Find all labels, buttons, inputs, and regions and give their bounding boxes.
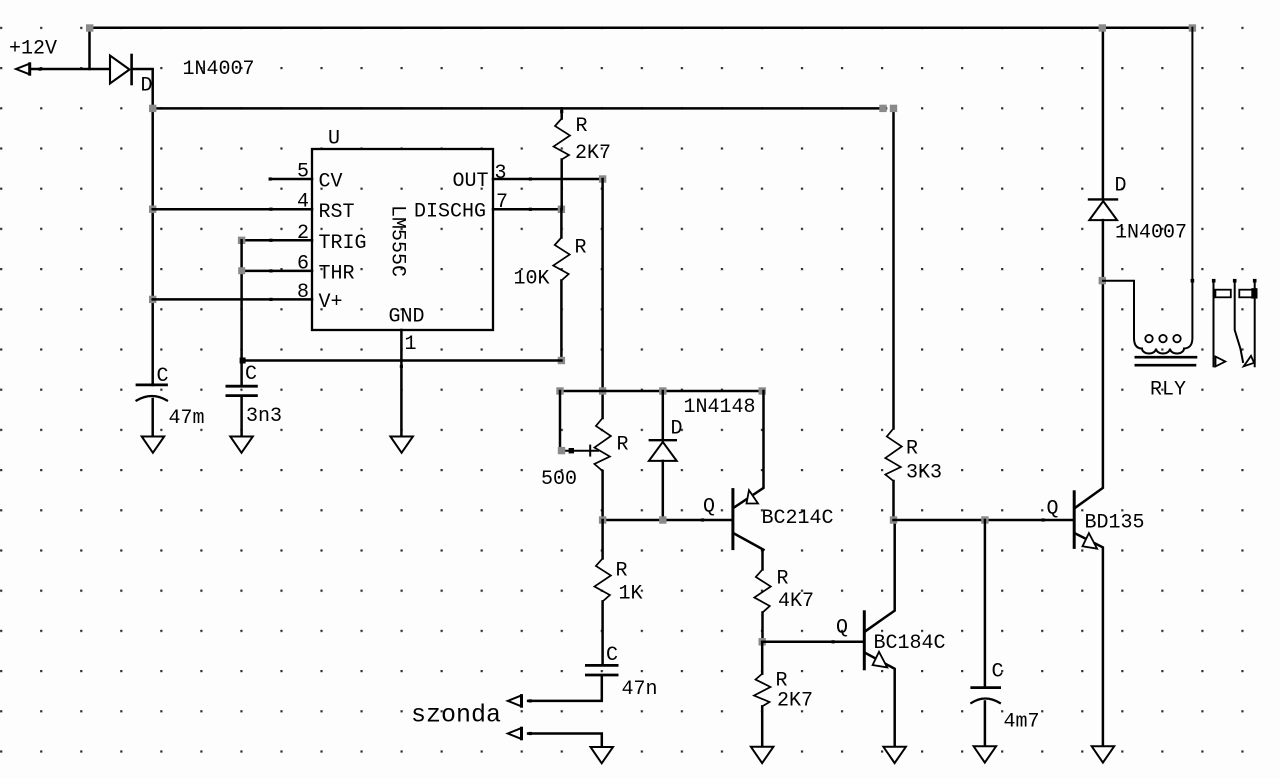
relay contact 2	[1233, 279, 1258, 366]
transistor Q BD135 (NPN)	[1074, 279, 1103, 746]
svg-text:5: 5	[297, 161, 309, 184]
resistor R 2K7 top	[554, 108, 571, 209]
ground under C 4m7	[974, 746, 997, 762]
svg-text:TRIG: TRIG	[319, 232, 367, 255]
relay contact 1	[1212, 279, 1231, 367]
capacitor C 3n3	[227, 386, 257, 436]
svg-text:1N4007: 1N4007	[1115, 222, 1187, 245]
wire V+ rail y=107.5	[153, 107, 886, 110]
capacitor C 47n	[528, 665, 617, 701]
junction left column at rail	[149, 105, 156, 112]
wire 3K3 column from V+ rail	[892, 108, 895, 428]
junction top rail left	[86, 24, 93, 31]
junction pot bottom	[599, 516, 606, 523]
pin 4 RST wire	[153, 208, 312, 211]
svg-text:C: C	[245, 363, 257, 386]
ground under BC184C emitter	[883, 747, 906, 763]
svg-text:47n: 47n	[622, 678, 658, 701]
junction OUT node	[599, 175, 606, 182]
junction top rail right end	[1189, 24, 1196, 31]
svg-text:3: 3	[495, 162, 507, 185]
svg-text:DISCHG: DISCHG	[414, 201, 486, 224]
junction TRIG	[238, 237, 245, 244]
svg-text:Q: Q	[836, 617, 848, 640]
wire base BC184C y=641.8	[762, 640, 863, 643]
ground under C 47m	[142, 437, 165, 453]
svg-text:D: D	[1115, 175, 1127, 198]
junction 4K7 / 2K7 node	[759, 638, 766, 645]
port +12V input	[16, 64, 42, 74]
wire OUT column down to pot	[601, 179, 604, 418]
svg-text:7: 7	[496, 191, 508, 214]
svg-text:R: R	[617, 434, 629, 457]
svg-text:3n3: 3n3	[246, 405, 282, 428]
potentiometer R 500	[560, 391, 611, 520]
junction pot wiper	[558, 447, 565, 454]
svg-text:R: R	[576, 115, 588, 138]
svg-text:BC214C: BC214C	[762, 507, 834, 530]
junction y391 right end	[759, 387, 766, 394]
svg-text:Q: Q	[1047, 498, 1059, 521]
wire base row BD135 y=520	[894, 518, 1074, 521]
junction 4m7 tap	[981, 516, 988, 523]
svg-text:RST: RST	[319, 201, 355, 224]
pin 7 DISCHG wire	[493, 208, 561, 211]
svg-text:C: C	[992, 661, 1004, 684]
junction coil node	[1099, 277, 1106, 284]
svg-text:D: D	[671, 418, 683, 441]
pin 3 OUT wire	[493, 177, 603, 180]
ground under BD135 emitter	[1092, 746, 1115, 762]
svg-text:THR: THR	[319, 263, 355, 286]
svg-text:R: R	[575, 237, 587, 260]
junction y391 left end	[556, 387, 563, 394]
pin 8 V+ wire	[153, 298, 312, 301]
port szonda upper	[508, 696, 532, 707]
svg-text:GND: GND	[389, 306, 425, 329]
wire top +12V rail	[90, 28, 1193, 69]
junction THR	[238, 267, 245, 274]
junction y391 diode top	[659, 387, 666, 394]
svg-text:2K7: 2K7	[575, 142, 611, 165]
ground under R 2K7 bottom	[751, 747, 774, 763]
resistor R 1K	[594, 520, 611, 665]
capacitor C 47m	[137, 385, 168, 437]
svg-text:R: R	[616, 560, 628, 583]
junction 3K3 bottom node	[890, 516, 897, 523]
relay RLY coil	[1103, 28, 1196, 365]
wire TRIG-THR column to C3n3	[240, 240, 243, 385]
svg-text:1N4148: 1N4148	[684, 396, 756, 419]
junction 3K3 column top	[890, 105, 897, 112]
junction V+ rail end	[879, 105, 886, 112]
junction 1N4148 bottom	[659, 516, 666, 523]
junction DISCHG node	[558, 206, 565, 213]
svg-text:Q: Q	[703, 496, 715, 519]
junction 10K bottom	[558, 357, 565, 364]
svg-text:R: R	[777, 568, 789, 591]
svg-text:LM555C: LM555C	[386, 205, 409, 277]
junction OUT at y=391	[599, 387, 606, 394]
wire +12V port to diode D1	[31, 68, 110, 71]
svg-text:500: 500	[541, 468, 577, 491]
svg-text:1N4007: 1N4007	[183, 58, 255, 81]
capacitor C 4m7	[971, 520, 1000, 746]
svg-text:D: D	[141, 75, 153, 98]
diode D1 1N4007	[110, 55, 132, 84]
port szonda lower	[508, 728, 532, 739]
wire THR node to 10K bottom y=360.5	[240, 358, 562, 364]
transistor Q BC214C (PNP)	[733, 391, 764, 550]
svg-text:U: U	[328, 128, 340, 151]
svg-text:C: C	[606, 644, 618, 667]
IC U LM555 body	[312, 149, 493, 330]
ground szonda	[591, 747, 614, 763]
svg-text:1K: 1K	[619, 583, 643, 606]
svg-text:C: C	[157, 365, 169, 388]
svg-text:8: 8	[297, 281, 309, 304]
svg-text:10K: 10K	[514, 268, 550, 291]
ground at pin 1	[390, 437, 413, 453]
ground under C 3n3	[230, 437, 253, 453]
svg-text:OUT: OUT	[453, 170, 489, 193]
svg-text:47m: 47m	[169, 407, 205, 430]
svg-text:2: 2	[297, 222, 309, 245]
wire node row y=391	[560, 390, 762, 393]
pin 1 GND wire	[400, 330, 403, 437]
pin 6 THR wire	[242, 269, 312, 272]
junction RST	[149, 206, 156, 213]
pin 2 TRIG wire	[242, 239, 312, 242]
svg-text:4m7: 4m7	[1004, 711, 1040, 734]
svg-text:szonda: szonda	[411, 701, 501, 730]
svg-text:6: 6	[297, 252, 309, 275]
junction top rail at flyback diode	[1099, 24, 1106, 31]
svg-text:3K3: 3K3	[906, 462, 942, 485]
svg-text:V+: V+	[319, 291, 343, 314]
svg-text:RLY: RLY	[1150, 379, 1186, 402]
svg-text:1: 1	[405, 333, 417, 356]
resistor R 10K	[553, 209, 570, 360]
resistor R 2K7 bottom	[754, 642, 771, 747]
svg-text:2K7: 2K7	[777, 690, 813, 713]
svg-text:4: 4	[297, 191, 309, 214]
wire szonda lower to ground	[528, 734, 602, 748]
diode D 1N4007 flyback	[1089, 28, 1117, 279]
svg-text:R: R	[906, 438, 918, 461]
wire base row BC214C y=520	[603, 518, 732, 521]
resistor R 3K3	[885, 429, 902, 521]
wire D1 cathode down left column	[133, 69, 153, 385]
svg-text:4K7: 4K7	[778, 590, 814, 613]
pin 5 CV stub	[269, 177, 312, 180]
svg-text:BD135: BD135	[1085, 512, 1145, 535]
resistor R 4K7	[754, 550, 771, 642]
diode D 1N4148	[649, 391, 677, 520]
junction V+ pin8	[149, 296, 156, 303]
svg-text:CV: CV	[319, 171, 343, 194]
transistor Q BC184C (NPN)	[864, 520, 894, 747]
svg-text:+12V: +12V	[9, 38, 57, 61]
svg-text:BC184C: BC184C	[874, 632, 946, 655]
